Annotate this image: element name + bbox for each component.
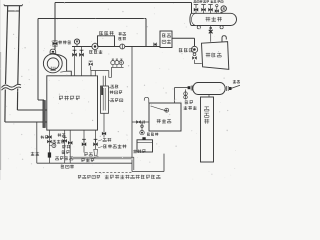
wire: left vertical — [36, 122, 38, 163]
pressure gauge P1 — [76, 44, 78, 47]
bypass loop huiyouguan — [98, 36, 115, 47]
fan hatch — [50, 67, 52, 71]
fan scroll casing — [43, 54, 62, 73]
valve: stop valve (jiezhifa) — [53, 42, 58, 46]
wire: bottom feed line — [37, 162, 132, 164]
labels yewei chuanganqi — [109, 87, 110, 89]
fuel tank ranliaoxiang — [202, 42, 229, 70]
wire: to feed tank — [174, 87, 187, 89]
cut-off labels at top edge — [194, 0, 203, 2]
valve riser 2 — [81, 47, 83, 76]
label youguo lvqi — [118, 32, 125, 35]
trap — [109, 67, 112, 77]
gauge drain — [103, 113, 105, 137]
small valve 4 — [216, 6, 218, 13]
suction fittings below pump — [193, 53, 196, 56]
level column pipes — [102, 76, 104, 86]
chimney stack — [4, 5, 22, 7]
label jiezhifa — [58, 41, 71, 45]
label guolu benti — [59, 96, 80, 100]
header pressure gauge — [221, 12, 223, 14]
oil preheater box — [160, 31, 172, 48]
dosing pump — [140, 130, 144, 134]
wire: y70.5 manifold — [91, 70, 109, 72]
fittings left of vessel — [190, 86, 192, 91]
inlet fittings right — [226, 86, 228, 91]
wire: feedwater line — [72, 46, 160, 48]
union fitting — [153, 43, 155, 47]
wire: loop over boiler — [38, 18, 146, 20]
feed chain — [48, 130, 50, 163]
transfer pump shuyoubeng — [191, 46, 197, 52]
softener stub — [208, 95, 210, 98]
caption — [78, 175, 100, 178]
wire: riser x132 — [131, 47, 133, 123]
dosing stem — [141, 122, 143, 130]
wire: tank outlet — [132, 121, 149, 123]
fan motor dome — [50, 49, 56, 53]
wire: drop to steam header — [191, 3, 193, 14]
valve on header x=196 — [195, 4, 197, 13]
wire: blowdown header (double pipe) — [73, 156, 134, 158]
raw water inlet laishui — [232, 85, 241, 88]
label huiyouguan — [100, 31, 114, 35]
feed water tank geishuixiang — [149, 103, 181, 131]
chimney break marks — [2, 84, 22, 87]
horizontal vessel — [193, 83, 225, 95]
boiler body box — [47, 76, 98, 130]
feed pump — [92, 43, 98, 49]
valve on header x=203.5 — [203, 4, 205, 13]
burner thick bar — [43, 101, 45, 128]
water softener box — [201, 97, 214, 162]
oil filter circle — [120, 44, 125, 49]
label fa — [103, 138, 111, 142]
valve on header x=210.5 — [210, 4, 212, 13]
page edge artifact — [0, 52, 2, 170]
sampling funnel — [94, 149, 98, 156]
label guoshui quyangkou — [104, 144, 127, 148]
header legs — [197, 26, 200, 29]
wire: riser x146 — [145, 19, 147, 47]
drain pipe x64.7 — [64, 130, 66, 163]
steam heating line into tank — [210, 26, 212, 42]
flue duct boiler to chimney — [17, 109, 46, 111]
small valve left — [90, 66, 92, 70]
valve riser 1 — [74, 47, 76, 76]
drain pipe x84 — [83, 130, 85, 153]
drain pipe x95.5 — [95, 130, 97, 149]
steam header fenqigang — [190, 13, 237, 25]
blowdown seal drop (double pipe) — [131, 122, 133, 172]
wire: gauge manifold — [111, 66, 123, 68]
tank vent pipe — [222, 36, 226, 42]
dosing tank box — [137, 140, 153, 152]
drain pipe x70.2 — [69, 130, 71, 163]
wire: preheater to transfer pump — [172, 37, 195, 39]
sampling riser — [185, 89, 187, 99]
three gauges — [112, 65, 114, 68]
level gauge column — [101, 86, 109, 113]
label geishuibeng — [90, 50, 103, 54]
wire: main steam riser — [54, 3, 56, 50]
wire: main steam top run — [55, 2, 192, 4]
tank inlet hook — [144, 97, 149, 103]
seal pot — [163, 154, 165, 172]
